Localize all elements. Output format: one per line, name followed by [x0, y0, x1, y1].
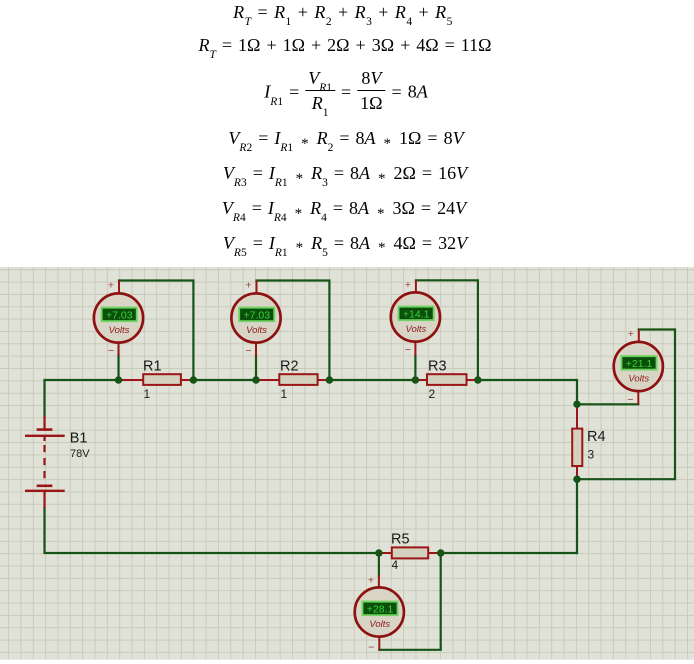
junction J3	[252, 376, 259, 383]
voltmeter V1	[94, 280, 143, 358]
svg-text:+: +	[628, 328, 634, 340]
wire J4 to J5	[329, 379, 415, 381]
wire V1 minus to J1	[117, 355, 119, 380]
svg-text:R1: R1	[143, 359, 162, 375]
svg-text:+: +	[405, 279, 411, 291]
svg-text:1: 1	[281, 387, 288, 401]
wire V3 minus to J5	[414, 355, 416, 380]
svg-text:+14.1: +14.1	[403, 308, 430, 320]
resistor R5 body	[392, 547, 428, 558]
svg-text:2: 2	[429, 387, 436, 401]
resistor R5 lead left	[379, 552, 392, 554]
voltmeter V3	[391, 279, 440, 356]
resistor R1 lead right	[181, 379, 194, 381]
wire J9 down to V5 plus	[378, 553, 380, 576]
wire battery top to bus	[45, 380, 119, 417]
wire V3 plus loop	[416, 280, 478, 380]
wire V4 minus to J7	[577, 403, 638, 405]
resistor R3 lead left	[415, 379, 427, 381]
svg-text:−: −	[405, 344, 411, 356]
svg-text:4: 4	[392, 558, 399, 572]
svg-text:Volts: Volts	[246, 325, 267, 336]
resistor R4 body (vertical)	[572, 429, 582, 466]
wire bottom bus right	[441, 552, 577, 554]
svg-text:−: −	[108, 345, 114, 357]
svg-text:Volts: Volts	[628, 374, 649, 385]
svg-text:+: +	[368, 575, 374, 587]
voltmeter V5	[355, 575, 404, 654]
svg-text:B1: B1	[70, 431, 88, 447]
svg-text:+: +	[245, 280, 251, 292]
wire V2 minus to J3	[255, 355, 257, 380]
resistor R2 body	[279, 374, 317, 385]
svg-text:+7.03: +7.03	[244, 309, 271, 321]
wire V2 plus loop	[257, 281, 330, 381]
svg-text:−: −	[245, 345, 251, 357]
resistor R2 lead right	[318, 379, 330, 381]
battery B1	[25, 416, 65, 508]
svg-text:+21.1: +21.1	[626, 358, 653, 370]
wire V5 minus loop	[379, 553, 440, 650]
junction J6	[474, 376, 481, 383]
resistor R5 lead right	[428, 552, 441, 554]
wire V1 plus loop	[119, 281, 193, 381]
schematic grid background	[0, 267, 694, 660]
wire bottom bus left	[45, 508, 379, 553]
wire J6 right and down to J7	[478, 380, 577, 404]
voltmeter V4	[614, 328, 663, 406]
svg-text:R3: R3	[428, 359, 447, 375]
svg-text:3: 3	[588, 448, 595, 462]
wire J2 to J3	[193, 379, 256, 381]
svg-text:R2: R2	[280, 359, 299, 375]
svg-text:−: −	[368, 641, 374, 653]
resistor R1 body	[143, 374, 181, 385]
junction J2	[190, 376, 197, 383]
resistor R1 lead left	[119, 379, 144, 381]
junction J8	[573, 476, 580, 483]
svg-text:78V: 78V	[70, 448, 90, 460]
junction J1	[115, 376, 122, 383]
junction J10	[437, 549, 444, 556]
junction J5	[412, 376, 419, 383]
svg-text:Volts: Volts	[369, 619, 390, 630]
svg-text:1: 1	[144, 387, 151, 401]
junction J4	[326, 376, 333, 383]
voltmeter V2	[231, 280, 280, 358]
resistor R3 body	[427, 374, 467, 385]
svg-text:−: −	[627, 394, 633, 406]
svg-text:+: +	[108, 280, 114, 292]
svg-text:+28.1: +28.1	[367, 603, 394, 615]
resistor R3 lead right	[467, 379, 478, 381]
svg-text:Volts: Volts	[109, 325, 130, 336]
svg-text:R5: R5	[391, 532, 410, 548]
wire J8 down to bottom bus	[576, 479, 578, 553]
junction J9	[375, 549, 382, 556]
svg-text:R4: R4	[587, 429, 606, 445]
resistor R4 lead top	[576, 404, 578, 428]
equations block	[233, 3, 453, 21]
resistor R2 lead left	[256, 379, 279, 381]
junction J7	[573, 401, 580, 408]
wire V4 plus loop	[577, 330, 675, 480]
svg-text:+7.03: +7.03	[106, 309, 133, 321]
resistor R4 lead bottom	[576, 466, 578, 479]
svg-text:Volts: Volts	[406, 324, 427, 335]
